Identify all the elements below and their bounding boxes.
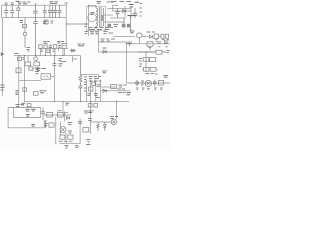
resistor R604 bbox=[154, 34, 161, 39]
label below T bbox=[90, 32, 99, 34]
node arrow mark bbox=[1, 52, 5, 56]
wire x60.4 bbox=[59, 122, 61, 135]
label mid bbox=[104, 32, 114, 34]
label mid cluster2 bbox=[68, 123, 73, 134]
error amp chain x80.5 bbox=[79, 56, 87, 102]
IC602 labels bbox=[89, 77, 101, 79]
opto PC701 box bbox=[41, 74, 51, 79]
wire y52 long bbox=[98, 51, 154, 53]
ground marks row bbox=[136, 88, 163, 90]
label hot cold bbox=[127, 93, 132, 95]
label above rail bbox=[50, 2, 58, 4]
IC601 block bbox=[122, 18, 130, 27]
resistor R606 bbox=[143, 58, 149, 62]
capacitor C602 pair bbox=[147, 32, 169, 38]
capacitor C713 bbox=[51, 5, 55, 18]
label top x90 bbox=[88, 112, 92, 114]
ground row2 bbox=[149, 47, 168, 49]
label top mini bbox=[58, 111, 68, 113]
bottom cluster top line bbox=[44, 114, 71, 116]
resistor R714 bbox=[25, 62, 31, 66]
wire AC rail B bbox=[2, 17, 67, 19]
resistor R702 bbox=[39, 45, 42, 49]
wire y107.5 bbox=[8, 107, 40, 109]
fuse F701 bbox=[16, 1, 20, 17]
wire feedback link y74.7 bbox=[81, 75, 99, 80]
resistor R721 bbox=[47, 50, 50, 53]
label row y105 bbox=[16, 105, 24, 107]
wire x55.8 bbox=[55, 117, 57, 143]
wire y87 bbox=[101, 86, 116, 88]
label bus left bbox=[15, 53, 19, 55]
capacitor C603 bbox=[127, 42, 131, 46]
label field1 bbox=[35, 68, 39, 74]
resistor R706 bbox=[31, 125, 35, 127]
output row2 bbox=[126, 43, 170, 45]
wire x98.4 drop bbox=[97, 30, 99, 52]
resistor R716 bbox=[16, 68, 21, 73]
wire relay drop bbox=[63, 48, 65, 55]
ticks below bus bbox=[22, 103, 70, 105]
label AC input bbox=[1, 85, 5, 90]
label x105 y72 bbox=[102, 71, 107, 73]
capacitor C704 bbox=[43, 5, 47, 18]
resistor R718 bbox=[27, 104, 31, 107]
diode D701 bbox=[70, 44, 85, 52]
capacitor C707 bbox=[58, 5, 62, 18]
label above opto bbox=[37, 69, 47, 71]
resistor R607 bbox=[150, 58, 156, 62]
resistor R703 bbox=[59, 62, 67, 67]
wire x131 bbox=[130, 8, 132, 18]
wire y42 bbox=[98, 41, 126, 43]
wire x64.3 bbox=[63, 111, 65, 121]
label far bottom bbox=[75, 146, 79, 148]
label column bbox=[140, 4, 143, 17]
label near IC601 bbox=[114, 24, 118, 26]
label top left bbox=[18, 2, 31, 4]
ground row1 bbox=[155, 40, 169, 42]
diode D606 bbox=[103, 89, 106, 92]
top labels right bbox=[111, 1, 140, 4]
wire y80.7 bbox=[19, 80, 41, 82]
label D601 bbox=[91, 13, 95, 15]
wire left drop bbox=[1, 18, 3, 96]
capacitor C703 X-cap bbox=[33, 3, 37, 56]
wire y122 bbox=[90, 121, 111, 123]
wire x86.6 bbox=[86, 80, 88, 102]
capacitor C605 bbox=[135, 80, 139, 87]
wire x100.7 bbox=[100, 80, 102, 102]
resistor R720 bbox=[53, 45, 57, 49]
capacitor C604 bbox=[157, 41, 169, 44]
capacitor C706 bbox=[54, 5, 58, 18]
tick marks below row bbox=[41, 50, 55, 52]
wire AC left vertical bbox=[1, 5, 3, 18]
transformer T701 frame bbox=[87, 6, 106, 30]
label above Q601 bbox=[145, 73, 147, 75]
wire x90.7 bbox=[90, 80, 92, 102]
resistor R609 bbox=[150, 67, 156, 71]
label row y109 bbox=[26, 109, 36, 111]
tick row tops bbox=[89, 80, 101, 82]
wire y11 bbox=[113, 10, 131, 12]
feedback wire1 bbox=[8, 108, 46, 128]
capacitor C710 bbox=[88, 119, 92, 121]
transistor Q603 circle bbox=[88, 13, 97, 22]
wire top right y6 bbox=[112, 5, 118, 7]
transformer T701 core bbox=[99, 7, 101, 27]
wire row line y48.3 bbox=[38, 47, 68, 49]
wire row y69.3 bbox=[142, 68, 158, 70]
output row3 y83 bbox=[127, 82, 170, 84]
capacitor C606 bbox=[153, 80, 157, 87]
wire row1 cont bbox=[142, 36, 148, 38]
resistor R701 bbox=[44, 20, 53, 24]
wire top link bbox=[64, 2, 68, 4]
wire x90.3 drop bbox=[89, 102, 91, 134]
label field2 bbox=[23, 58, 25, 60]
resistor R704 bbox=[34, 91, 47, 95]
capacitor C607 bbox=[94, 94, 98, 96]
wire x66 drop2 bbox=[65, 133, 67, 144]
wire y8.3 bbox=[108, 7, 132, 9]
diode D603 bbox=[123, 10, 126, 13]
right chain top bbox=[138, 50, 170, 54]
label above out row bbox=[146, 73, 158, 76]
wire x112 bbox=[111, 6, 113, 11]
zener D703 bbox=[34, 57, 38, 61]
resistor R610 bbox=[141, 81, 144, 85]
wire x116.5 drop bbox=[116, 102, 118, 120]
relay RL701 bbox=[62, 43, 67, 48]
resistor R710 bbox=[60, 135, 65, 139]
ground G1 bbox=[86, 140, 91, 145]
resistor R605 bbox=[147, 42, 153, 46]
transistor Q602 bbox=[111, 119, 116, 124]
label cluster bbox=[27, 48, 31, 52]
label right of diode bbox=[118, 89, 126, 92]
label Q602 bbox=[110, 116, 118, 118]
diode D605 bbox=[149, 35, 152, 38]
wire x63 drop bbox=[62, 102, 64, 113]
label bottom right top bbox=[84, 111, 92, 113]
label below rail B bbox=[20, 21, 24, 23]
wire IC left vertical1 bbox=[18, 56, 20, 108]
capacitor C708 bbox=[53, 56, 62, 68]
label y39 row bbox=[101, 39, 116, 41]
transistor Q601 bbox=[145, 80, 151, 86]
capacitor C709 bbox=[41, 108, 45, 121]
wire y18 bbox=[110, 17, 125, 19]
wire secondary lead y22 bbox=[104, 21, 125, 23]
capacitor C609 bbox=[97, 85, 100, 87]
capacitor C712 bbox=[49, 44, 52, 48]
resistor R614 bbox=[97, 122, 99, 131]
wire main HV vertical bbox=[65, 3, 67, 43]
resistor R712 bbox=[83, 128, 89, 132]
opto inner bbox=[43, 76, 49, 78]
resistor R711 bbox=[68, 135, 73, 139]
wire HV feed vertical bbox=[87, 6, 89, 36]
resistor R709 bbox=[45, 123, 54, 127]
capacitor C702 bbox=[10, 3, 14, 18]
wire row stubs bbox=[41, 48, 64, 56]
label T701 bbox=[97, 1, 114, 3]
capacitor C701 bbox=[4, 3, 8, 18]
bottom rail bbox=[60, 142, 81, 144]
inductor L601 bbox=[136, 33, 142, 38]
resistor R705 bbox=[26, 115, 30, 117]
diode D607 bbox=[103, 122, 106, 131]
capacitor C601 bbox=[133, 8, 138, 18]
resistor R615 bbox=[108, 24, 112, 28]
resistor R724 bbox=[94, 104, 98, 107]
wire stub y110.8 bbox=[89, 110, 95, 112]
label row y42 bbox=[43, 42, 64, 44]
wire y90.8 bbox=[101, 90, 130, 92]
wire opto link bbox=[51, 76, 55, 78]
wire primary link bbox=[66, 23, 88, 25]
wire drop x72.4 bbox=[72, 56, 77, 62]
resistor R613 bbox=[111, 85, 127, 89]
label cluster mid bbox=[88, 94, 100, 98]
wire bus left y55.6 bbox=[14, 55, 81, 57]
wire field stubs bbox=[28, 56, 37, 69]
diode D604 cluster bbox=[128, 5, 137, 31]
resistor R713 bbox=[18, 57, 22, 60]
label left of T bbox=[84, 24, 88, 34]
capacitor C608 bbox=[116, 8, 120, 18]
transformer T701 secondary bbox=[101, 8, 104, 26]
transformer T701 top lead bbox=[88, 5, 96, 7]
output row1 bbox=[113, 31, 135, 37]
junction dots bbox=[18, 5, 146, 144]
resistor R707 bbox=[47, 112, 53, 117]
resistor R708 bbox=[58, 112, 64, 117]
resistor R723 bbox=[88, 104, 92, 107]
resistor R722 bbox=[23, 88, 27, 91]
diode D602 arrow bbox=[103, 48, 107, 53]
capacitor C705 bbox=[48, 5, 52, 18]
resistor R717 bbox=[29, 67, 33, 70]
diode D702 bbox=[66, 116, 69, 119]
wire right x80.1 bbox=[79, 118, 81, 143]
transformer T701 primary winding bbox=[96, 6, 98, 29]
wire L601 stub bbox=[138, 38, 140, 44]
resistor R715 bbox=[34, 62, 40, 66]
label bottom right bbox=[164, 76, 169, 78]
wire x126.6 drop bbox=[126, 42, 128, 83]
ground G2 bbox=[65, 145, 69, 148]
resistor R719 bbox=[44, 45, 47, 48]
wire IC left vertical2 bbox=[24, 56, 26, 102]
wire C602 stub bbox=[163, 38, 165, 44]
resistor R611 bbox=[159, 80, 164, 85]
connector bracket J701 bbox=[44, 121, 47, 126]
wire bus y101.6 bbox=[25, 101, 130, 103]
wire drop x54.5 lower bbox=[54, 68, 56, 102]
label IC701 bbox=[15, 91, 18, 95]
wire x95.8 bbox=[95, 80, 97, 102]
resistor R616 bbox=[92, 82, 95, 85]
wire right vertical x146 bbox=[145, 52, 147, 72]
label C703 bbox=[43, 21, 47, 23]
wire secondary lead y15 bbox=[104, 14, 113, 16]
resistor R608 bbox=[144, 67, 149, 71]
label right chain bbox=[139, 59, 142, 67]
label under boxes bbox=[59, 140, 73, 142]
thermistor TH701 bbox=[23, 18, 27, 48]
capacitor C711 bbox=[78, 121, 82, 123]
transformer bottom ticks bbox=[89, 27, 114, 29]
wire x125 vertical bbox=[124, 6, 126, 18]
wire AC rail A bbox=[2, 4, 67, 6]
transistor Q701 bbox=[60, 127, 66, 133]
label small row bbox=[58, 46, 61, 48]
feedback wire2 bbox=[14, 108, 41, 118]
resistor R612 bbox=[89, 87, 93, 91]
